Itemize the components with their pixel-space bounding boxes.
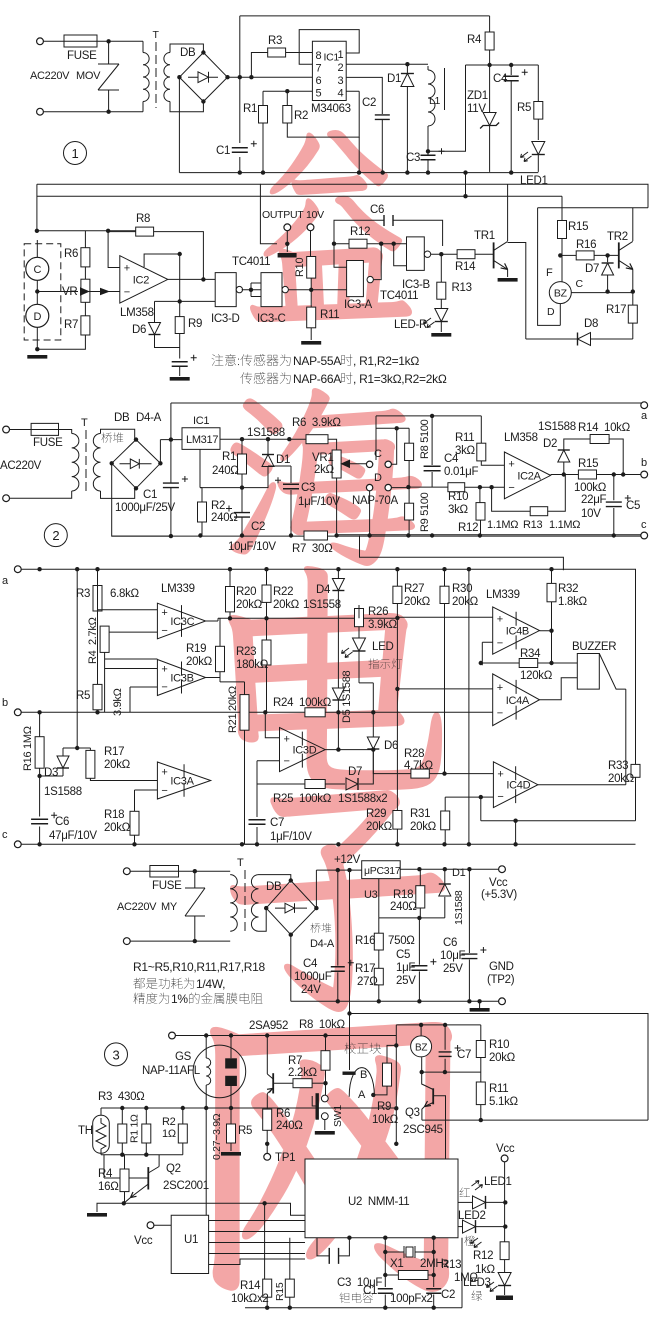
label ZD1 [467,90,488,102]
resistor R25 [305,780,325,789]
varistor MOV [98,41,119,111]
wire bottom rail 4 [291,1000,502,1002]
terminal OUTPUT [284,224,291,231]
wire LM317 adj [200,449,242,487]
label U2 NMM-11 [348,1196,409,1208]
wire IC3D minus [257,760,280,762]
wire 12V rail [316,869,361,871]
junction lineB dots [419,1023,447,1027]
label R15 [568,221,588,233]
label FUSE [67,50,97,62]
capacitor C1-5 plates [378,1289,393,1294]
svg-text:1μF: 1μF [396,962,415,974]
wire U1 pin4 [209,1253,305,1255]
regulator IC1 LM317 [182,428,220,450]
wire b rail [21,711,493,713]
resistor R13 2 [530,507,548,516]
wire R3 col [98,569,158,611]
wire sensor col left [205,1036,207,1109]
junction R14 top [262,1201,266,1205]
junction D3 R17 node [75,746,79,750]
resistor R14 5 [263,1279,272,1297]
svg-text:C3: C3 [406,152,420,164]
wire L1 bottom to +10V rail [428,65,466,151]
resistor R adj 5 [178,1124,187,1143]
wire IC3B minus [130,687,157,712]
svg-text:6: 6 [316,75,322,87]
transformer T2 primary winding [72,434,79,492]
label LED-R [394,319,427,331]
resistor R34 [519,659,538,668]
resistor R10 [307,257,316,279]
svg-text:D2: D2 [543,438,557,450]
label C6 4 [443,937,457,949]
resistor R17 alarm [628,305,637,323]
transistor Q2 2SC2001 [124,1155,159,1204]
label R5 3.9k [112,688,124,716]
wire sec2 top to bridge [101,429,135,440]
ground below SW1 [315,1131,335,1135]
svg-text:IC1: IC1 [193,415,209,427]
svg-text:C6: C6 [370,204,384,216]
label R19 value [186,656,213,668]
svg-text:Q2: Q2 [166,1163,181,1175]
wire C5-4 col [418,918,420,1001]
transformer T3 primary winding [230,875,237,932]
svg-text:R12: R12 [473,1250,493,1262]
label D [33,311,41,323]
wire R30 col [444,569,446,773]
wire IC2A out [551,474,579,476]
wire minus to fb line [481,797,636,821]
label C6 value [49,830,97,842]
label R33 [608,760,628,772]
junction b rail dots [37,710,375,714]
pin 7 [316,63,322,75]
label R18 3 [104,809,124,821]
label DB [180,47,196,59]
wire ac3 top [130,870,150,872]
pin 6 [316,75,322,87]
svg-text:D4: D4 [316,584,331,596]
svg-text:1S1588: 1S1588 [538,421,576,433]
svg-text:10V: 10V [581,508,601,520]
label D6 3 [384,740,398,752]
svg-text:R12: R12 [458,522,478,534]
wire rail2 segment [37,195,562,197]
wire IC4D minus [481,796,494,798]
wire R5 col [97,569,99,712]
label LM358 [120,307,154,319]
label C3 2 [301,482,315,494]
svg-text:8: 8 [316,50,322,62]
junction R27 ic4a plus [395,687,399,691]
resistor R1 5 [118,1124,127,1143]
label OUTPUT [262,209,304,221]
wire D bottom [36,327,38,349]
resistor R6 5 [263,1109,272,1130]
junction OUTPUT node [285,242,289,246]
label C7 5 [457,1049,471,1061]
wire R33 col [635,586,637,821]
wire R1-2 top [241,439,243,454]
svg-text:R6: R6 [276,1108,290,1120]
varistor MY [185,871,205,941]
label C4-3 24V [301,984,321,996]
junction MY top [193,869,197,873]
transformer T2 core [85,430,87,492]
note jingdu a [134,993,170,1004]
terminal b [641,471,648,478]
svg-text:R33: R33 [608,760,628,772]
wire primary stubs [142,41,144,111]
svg-text:R17: R17 [606,304,626,316]
svg-text:b: b [2,697,8,709]
resistor R16 3 [35,737,44,769]
diode D2 symbol [558,450,570,462]
terminal a [641,402,648,409]
wire gate C inputs [251,283,261,297]
wire D6 bottom [155,335,180,348]
label R10 2 [448,491,468,503]
label C2 5 [441,1289,455,1301]
wire lower input line [155,300,216,302]
wire R15 top [561,208,563,221]
label R2 value [211,512,238,524]
wire D5 bottom [337,700,339,750]
svg-text:2SC945: 2SC945 [403,1124,443,1136]
IC U1 [171,1215,208,1273]
label R7 [64,319,78,331]
svg-text:20kΩ: 20kΩ [410,821,437,833]
wire Radj col [182,1108,184,1155]
wire OUTPUT down [286,231,288,252]
pin 1 [338,49,344,61]
junction D6 out node [371,747,375,751]
svg-text:+: + [284,734,290,746]
label R15 2 [578,458,598,470]
svg-text:1.1MΩ: 1.1MΩ [549,519,580,531]
terminal GND [499,998,506,1005]
wire R13 to LED-R [440,299,442,308]
junction MY bottom [193,939,197,943]
junction R16 D3 node [37,774,41,778]
wire R26 to LED [358,627,360,638]
svg-text:R25 100kΩ: R25 100kΩ [273,793,332,805]
svg-text:IC4D: IC4D [506,780,530,792]
label 750 [388,935,415,947]
note gonghao b [196,977,225,991]
comparator IC4B [493,607,540,654]
resistor R1 [259,106,268,124]
label C7 value [270,831,312,843]
label 25V b [443,963,463,975]
buzzer BUZZER [577,654,626,690]
label R12 [350,226,370,238]
svg-text:U2 NMM-11: U2 NMM-11 [348,1196,409,1208]
label R3 430 [98,1091,145,1103]
svg-text:BZ: BZ [415,1042,427,1053]
svg-text:AC220V: AC220V [0,460,42,472]
terminal c left [14,841,21,848]
wire D7 bottom [607,275,609,292]
capacitor C2-5 plates [426,1289,441,1294]
svg-text:5.1kΩ: 5.1kΩ [489,1096,519,1108]
wire R20 col [229,569,231,618]
wire C2 bottom to bus [381,120,383,173]
wire C4-2 column [431,416,433,487]
svg-text:T: T [153,29,160,41]
arrow into VR1 wiper [342,460,350,467]
label jiaozhengkuai [345,1043,382,1054]
label FUSE 2 [33,437,63,449]
wire D1 top stub [406,64,408,73]
wire D3 bottom [62,768,64,776]
svg-text:R31: R31 [410,808,430,820]
wire R21 col top [244,682,246,695]
label MY [161,901,178,913]
label C4-3 value [294,971,332,983]
svg-text:AC220V: AC220V [30,70,70,82]
svg-text:D7: D7 [585,263,599,275]
svg-text:16Ω: 16Ω [98,1181,119,1193]
wire R17 col [77,569,157,780]
label Q2 [166,1163,181,1175]
label R23 [236,646,256,658]
svg-text:R3 430Ω: R3 430Ω [98,1091,145,1103]
resistor R4 5 [120,1169,129,1192]
label R1 value [212,465,239,477]
label 10V c5 [581,508,601,520]
wire LED1 line [458,1201,472,1203]
svg-text:+: + [508,459,514,471]
label C6 [370,204,384,216]
wire R16-4 col [378,918,380,968]
svg-text:R18: R18 [393,889,413,901]
wire Q2 base left [104,1155,148,1178]
wire D3 top link [63,747,90,749]
note line1b [240,354,290,366]
label R11 2 [455,432,474,444]
wire VR mid [84,267,86,279]
wire R12 bottom [504,1260,506,1272]
svg-text:AC220V: AC220V [117,901,157,913]
label T [153,29,160,41]
junction opamp plus branch [106,229,110,233]
svg-text:−: − [508,482,514,494]
capacitor C-bias [172,355,197,367]
label R7 2 [292,543,333,555]
capacitor C6-3 plates [31,812,57,824]
label R5 3 [76,690,90,702]
diode D5 symbol [332,688,344,700]
terminal TP1 [264,1153,271,1160]
svg-text:R23: R23 [236,646,256,658]
label VR1 [312,452,333,464]
label R16 [576,239,596,251]
wire C4 column [510,65,512,172]
label R10 [294,258,306,277]
junction D6 R9 top node [178,299,182,303]
svg-text:180kΩ: 180kΩ [236,659,269,671]
diode D6 symbol [149,323,161,335]
wire R8-2 bottom [408,461,410,504]
label 1S1588 d3 [44,786,82,798]
resistor R9 2 [405,503,414,520]
terminal Vcc U1 [147,1222,154,1229]
wire LM317 out rail [220,438,306,440]
svg-text:R7: R7 [288,1055,302,1067]
label R29 [366,808,386,820]
wire TR1 emitter [507,269,509,277]
wire D7 column [607,255,609,262]
label 1S1588 4 [453,890,465,925]
label C4 [493,73,508,85]
label AC220V 3 [117,901,157,913]
resistor R3 3 [93,586,102,612]
wire R16 to TR2 base [594,254,619,256]
svg-text:IC3D: IC3D [293,745,317,757]
svg-text:R26: R26 [368,606,388,618]
svg-text:b: b [641,457,647,469]
wire IC3A out up [373,244,381,280]
op-amp IC2A (LM358) [504,452,550,499]
wire D3 col [62,748,64,756]
label R28 [404,748,424,760]
label IC1 [324,52,340,64]
wire node to IC3A in2 [311,289,346,291]
label R9 5 [377,1101,391,1113]
svg-text:1000μF: 1000μF [294,971,332,983]
label LM339 left [161,583,195,595]
wire R9 bottom [179,334,181,359]
label R17 [606,304,626,316]
sensor block dashed box [24,244,61,340]
label c left [2,829,8,841]
label R2 value 5 [162,1128,176,1140]
wire D1-4 col [444,869,446,918]
resistor R27 [393,586,402,603]
label R2 [294,110,308,122]
label lv [472,1290,482,1300]
pin 4 [338,88,344,100]
wire to ground 5 [97,1203,124,1212]
label R17 4 [355,963,375,975]
label R4 value 5 [98,1181,119,1193]
svg-text:c: c [2,829,8,841]
resistor R8 2 [405,443,414,460]
junction R34 right [549,661,553,665]
label D6 [132,324,146,336]
wire R18-4 col [419,869,421,918]
svg-text:C2: C2 [441,1289,455,1301]
comparator IC3C [157,603,205,639]
diode D4 symbol [332,579,344,591]
svg-text:R2: R2 [162,1116,176,1128]
svg-text:3kΩ: 3kΩ [448,504,469,516]
wire secondary bottom to bridge [170,101,203,112]
svg-text:SW1: SW1 [332,1105,344,1127]
wire sensor coil col down [205,1108,207,1215]
label R12 5 [473,1250,493,1262]
resistor R14 [457,250,475,259]
wire frame above [360,536,564,571]
label TC4011 right [380,290,418,302]
junction R30 plus [442,771,446,775]
svg-text:IC2: IC2 [133,274,149,286]
transformer T3 core [244,870,246,934]
wire R7 bottom [37,335,85,349]
label R11 5 [489,1083,508,1095]
label R1 [243,103,257,115]
IC U1 M34063 [312,41,346,100]
wire bridge3 bottom down [290,935,292,1002]
label R22 value [273,599,300,611]
label R8 5100 [419,419,431,459]
label uPC317 [364,865,401,877]
label 2SA952 [249,1020,288,1032]
label C7 3 [270,817,284,829]
svg-text:U3: U3 [364,889,378,901]
junction C3 right pin [347,1236,351,1240]
junction col396 dots [394,1043,398,1146]
ground TP2 [470,1008,490,1012]
wire R5-5 col [230,1108,232,1151]
svg-text:3: 3 [113,1047,120,1062]
resistor R12 2 [476,503,485,520]
circled number 3 [105,1043,128,1066]
label R11 [320,309,339,321]
label AC220V 2 [0,460,42,472]
svg-text:R32: R32 [558,583,578,595]
wire R6 top [84,231,86,248]
label R27 [404,583,424,595]
wire mid rail 5 [101,1107,396,1109]
svg-text:−: − [284,756,290,768]
wire sec3 top [259,875,291,881]
circled number 2 [44,524,67,547]
svg-text:FUSE: FUSE [67,50,97,62]
label A [358,1089,366,1101]
label Q3 [405,1107,420,1119]
pin 8 [316,50,322,62]
label R11 value [455,445,476,457]
wire TR2 emitter down [632,269,634,291]
resistor R5 5 [227,1124,236,1143]
wire R29 bottom [396,829,398,844]
svg-text:20kΩ: 20kΩ [452,596,479,608]
wire R13 branch [385,1252,433,1275]
resistor R29 [393,811,402,830]
svg-text:D: D [374,472,382,484]
svg-text:TP1: TP1 [275,1152,295,1164]
label TR2 [607,231,628,243]
wire sec3 bottom [259,908,267,931]
buzzer BZ circle [549,282,571,304]
svg-text:C: C [576,278,584,290]
LED1 symbol [532,142,545,155]
wire R16 col [40,712,63,776]
svg-text:T: T [237,857,244,869]
wire minus feedback line [257,761,305,784]
wire top rail 5 [175,1035,396,1037]
label U3 [364,889,378,901]
svg-text:R4: R4 [467,34,482,46]
junction adj node [240,485,244,489]
label qiaodui 3 [310,923,331,933]
resistor R16 alarm [576,251,594,260]
label C1 value [115,502,176,514]
